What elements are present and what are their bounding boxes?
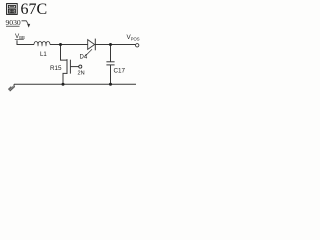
svg-text:2N: 2N <box>78 71 85 77</box>
svg-text:D4: D4 <box>80 55 88 61</box>
svg-text:BB: BB <box>19 35 25 40</box>
svg-text:POS: POS <box>131 36 140 41</box>
svg-text:R15: R15 <box>50 65 62 72</box>
svg-text:67C: 67C <box>21 1 48 18</box>
svg-text:9030: 9030 <box>6 18 21 27</box>
svg-text:L1: L1 <box>40 52 47 58</box>
svg-text:C17: C17 <box>114 68 126 75</box>
